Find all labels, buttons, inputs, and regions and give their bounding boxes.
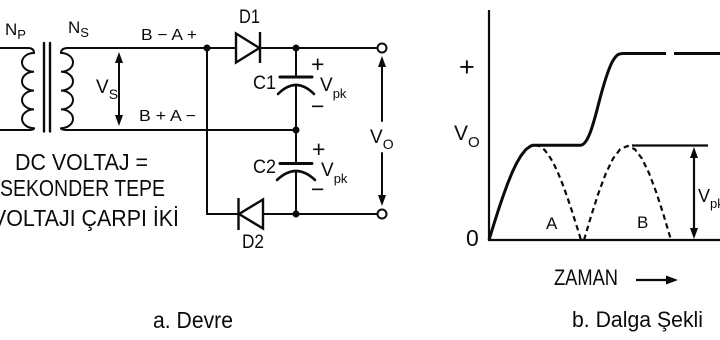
svg-text:VOLTAJI ÇARPI İKİ: VOLTAJI ÇARPI İKİ — [0, 205, 179, 231]
svg-text:D1: D1 — [239, 7, 260, 28]
svg-text:B + A −: B + A − — [139, 108, 196, 125]
svg-text:C2: C2 — [253, 157, 276, 178]
svg-text:D2: D2 — [242, 232, 264, 253]
svg-text:a. Devre: a. Devre — [153, 307, 233, 333]
svg-text:DC VOLTAJ =: DC VOLTAJ = — [15, 149, 148, 175]
svg-text:C1: C1 — [253, 73, 276, 94]
svg-text:+: + — [311, 51, 324, 77]
svg-text:B − A +: B − A + — [141, 27, 197, 44]
svg-text:b. Dalga Şekli: b. Dalga Şekli — [572, 307, 703, 332]
svg-text:A: A — [546, 214, 558, 233]
svg-text:0: 0 — [466, 225, 479, 251]
svg-text:+: + — [459, 52, 475, 82]
svg-text:−: − — [311, 93, 324, 119]
svg-text:B: B — [637, 213, 648, 232]
svg-text:+: + — [312, 136, 325, 162]
svg-text:ZAMAN: ZAMAN — [554, 265, 618, 290]
svg-text:SEKONDER TEPE: SEKONDER TEPE — [0, 175, 165, 201]
